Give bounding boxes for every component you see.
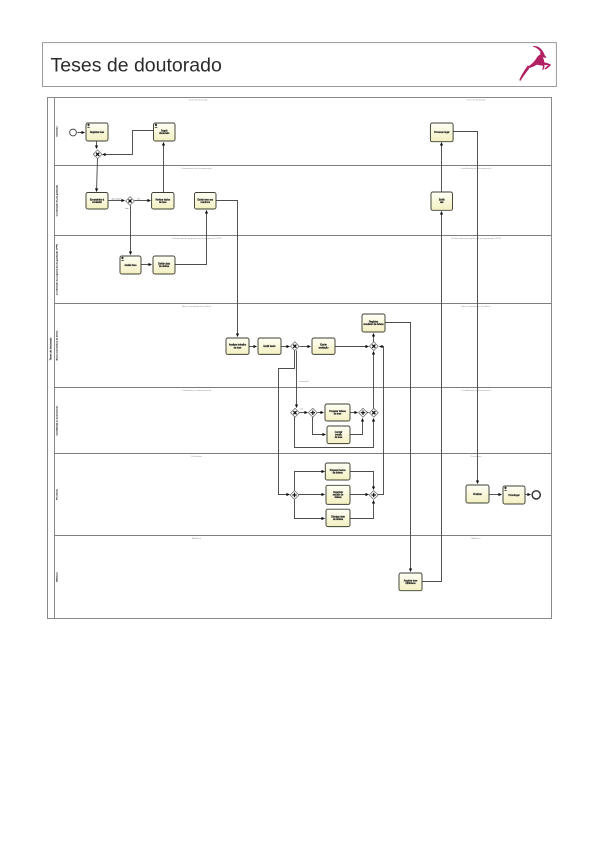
svg-text:da defesa: da defesa <box>333 473 344 475</box>
svg-text:Arquivar tese: Arquivar tese <box>404 579 418 582</box>
svg-text:defesa: defesa <box>335 497 343 499</box>
svg-text:Pró-reitoria: Pró-reitoria <box>191 455 202 458</box>
svg-text:Teses de doutorado: Teses de doutorado <box>467 99 487 102</box>
svg-text:Organizar: Organizar <box>333 491 343 494</box>
svg-text:Enviar tese aos: Enviar tese aos <box>197 198 214 201</box>
svg-text:Pró-reitoria: Pró-reitoria <box>55 488 58 500</box>
svg-text:Biblioteca: Biblioteca <box>471 537 481 540</box>
svg-text:Definir data: Definir data <box>158 263 170 266</box>
svg-text:Teses de doutorado: Teses de doutorado <box>51 55 222 77</box>
svg-text:da defesa: da defesa <box>333 519 344 521</box>
svg-text:Analisar trabalho: Analisar trabalho <box>229 344 247 347</box>
svg-text:Registrar tese: Registrar tese <box>90 131 105 134</box>
svg-text:da defesa: da defesa <box>159 266 170 268</box>
svg-text:Revisar dados: Revisar dados <box>155 198 171 201</box>
svg-text:transação?: transação? <box>299 380 310 383</box>
svg-text:Coordenação do programa de pós: Coordenação do programa de pós-graduação… <box>451 237 501 240</box>
svg-text:aprovada?: aprovada? <box>111 197 122 200</box>
svg-text:Registrar: Registrar <box>369 321 379 324</box>
svg-text:da tese: da tese <box>335 436 343 439</box>
svg-text:Preparar defesa: Preparar defesa <box>329 410 346 413</box>
svg-text:versão: versão <box>335 434 343 437</box>
svg-text:Corrigir: Corrigir <box>335 431 343 434</box>
svg-text:da tese: da tese <box>234 346 242 349</box>
svg-text:membros: membros <box>200 201 210 204</box>
svg-text:biblioteca: biblioteca <box>406 582 416 585</box>
svg-text:Teses de doutorado: Teses de doutorado <box>48 337 52 360</box>
svg-text:Candidato(a) ao doutoramento: Candidato(a) ao doutoramento <box>55 405 58 436</box>
svg-text:da tese: da tese <box>334 413 342 416</box>
svg-text:Processo legal: Processo legal <box>434 131 450 134</box>
svg-text:sim: sim <box>137 198 141 200</box>
svg-text:Encaminhar à: Encaminhar à <box>90 198 105 201</box>
svg-text:Banca examinadora da defesa: Banca examinadora da defesa <box>55 330 58 360</box>
svg-text:Orientador: Orientador <box>55 126 58 137</box>
svg-text:Pró-reitoria: Pró-reitoria <box>471 455 482 458</box>
svg-text:Avaliar tese: Avaliar tese <box>125 264 138 267</box>
svg-text:Banca examinadora da defesa: Banca examinadora da defesa <box>182 306 212 308</box>
svg-text:sessão de: sessão de <box>333 494 344 497</box>
svg-text:Teses de doutorado: Teses de doutorado <box>189 99 209 102</box>
svg-text:Coordenação de pós-graduação: Coordenação de pós-graduação <box>181 167 213 170</box>
svg-text:doutorado: doutorado <box>159 132 170 135</box>
svg-text:Coordenação de pós-graduação: Coordenação de pós-graduação <box>55 184 58 216</box>
svg-text:Preparar banca: Preparar banca <box>330 469 347 472</box>
svg-text:Divulgar data: Divulgar data <box>331 515 345 518</box>
svg-text:avaliação: avaliação <box>319 346 329 349</box>
svg-text:Emitir laudo: Emitir laudo <box>263 345 276 348</box>
svg-text:Finalizar: Finalizar <box>473 493 482 496</box>
svg-text:Candidato(a) ao doutoramento: Candidato(a) ao doutoramento <box>182 389 212 392</box>
svg-text:Enviar: Enviar <box>320 344 327 347</box>
svg-text:Biblioteca: Biblioteca <box>192 537 202 540</box>
svg-text:Seguir: Seguir <box>161 130 168 133</box>
svg-text:Biblioteca: Biblioteca <box>55 571 58 581</box>
svg-text:Candidato(a) ao doutoramento: Candidato(a) ao doutoramento <box>461 389 491 392</box>
svg-text:Banca examinadora da defesa: Banca examinadora da defesa <box>461 306 491 308</box>
svg-text:comissão: comissão <box>92 201 102 204</box>
svg-text:Coordenação do programa de pós: Coordenação do programa de pós-graduação… <box>55 244 58 295</box>
svg-text:Homologar: Homologar <box>508 494 519 497</box>
svg-text:Emitir: Emitir <box>439 199 445 202</box>
svg-text:da tese: da tese <box>159 201 167 204</box>
svg-text:Coordenação de pós-graduação: Coordenação de pós-graduação <box>461 167 493 170</box>
svg-text:resultado da defesa: resultado da defesa <box>363 323 384 326</box>
svg-text:Coordenação do programa de pós: Coordenação do programa de pós-graduação… <box>171 237 221 240</box>
